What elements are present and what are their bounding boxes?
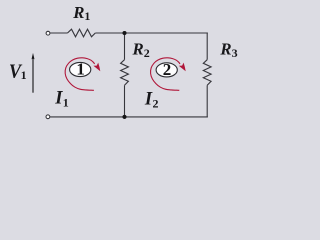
svg-text:1: 1 [76, 60, 85, 79]
mesh loop 2 red arrow [151, 58, 180, 91]
mesh loop 1 red arrow [65, 58, 94, 91]
svg-text:2: 2 [163, 60, 172, 79]
resistor R3 [203, 60, 211, 86]
wire: middle branch upper [124, 33, 126, 60]
resistor R2 [121, 60, 129, 86]
wire: right branch upper [206, 33, 208, 60]
node: top junction dot [122, 31, 126, 35]
wire: middle branch lower [124, 85, 126, 117]
mesh 2 circle [156, 63, 177, 77]
terminal: bottom-left port [46, 115, 50, 119]
node: bottom junction dot [122, 115, 126, 119]
terminal: top-left port [46, 31, 50, 35]
wire: R1 to top-right corner [95, 32, 207, 34]
wire: bottom from terminal to bottom-right corner [50, 116, 208, 118]
resistor R1 [68, 29, 96, 37]
mesh 1 circle [70, 62, 91, 76]
source V1 direction arrow [32, 58, 34, 93]
wire: top-left terminal to R1 [50, 32, 67, 34]
wire: right branch lower [206, 85, 208, 117]
